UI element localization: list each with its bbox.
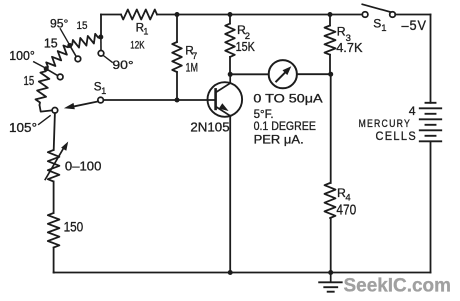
wire top rail R2 to R3 node [230,14,330,16]
wire top rail R3 to switch [330,14,362,16]
rheostat arrow [45,146,65,179]
svg-text:1M: 1M [186,61,199,75]
leader 105 degrees [39,116,51,125]
meter M1 circle [269,60,297,88]
svg-text:15: 15 [24,74,35,88]
rheostat 0-100 [48,150,60,182]
wire chain end to 105 contact [40,105,53,112]
svg-text:7: 7 [192,51,197,61]
leader 95 degrees [60,29,68,43]
switch S1 left contact [362,12,368,18]
transistor Q1 circle [208,82,243,117]
svg-text:1: 1 [101,86,106,96]
wire R2 bottom lead [229,57,231,74]
battery cell 3 negative plate [426,124,436,126]
svg-text:470: 470 [336,202,356,218]
node 95 degrees tap [67,43,72,48]
contact 90 degrees [98,51,104,57]
meter M1 needle [276,71,286,81]
switch S1 wiper arrowhead [64,103,75,109]
node collector junction [228,72,233,77]
battery cell 2 positive plate [420,118,441,120]
resistor 15 (95-100 segment) [46,46,70,69]
wire collector node to meter [233,73,269,75]
wire battery bottom lead [430,142,432,273]
wire R4 bottom lead [330,218,332,273]
resistor R4 [325,183,336,218]
transistor Q1 emitter arrow (PNP) [219,103,229,111]
wire S1 wiper to base node [103,99,177,101]
wire R3 top lead [329,15,331,26]
svg-text:0 TO 50μA: 0 TO 50μA [253,92,322,106]
svg-text:100°: 100° [9,49,35,63]
wire R3 bottom lead [329,55,331,74]
resistor 15 (90-95 segment) [70,34,101,48]
wire 150 to bottom rail [53,248,55,273]
svg-text:0–100: 0–100 [65,158,102,173]
resistor 150 [48,213,60,248]
wire R7 bottom lead [176,72,178,100]
node meter-R3-R4 junction [328,72,333,77]
battery cell 1 positive plate [420,107,441,109]
resistor R1 [121,10,157,20]
svg-text:SeekIC.com: SeekIC.com [344,275,452,297]
resistor R3 [325,26,336,55]
svg-text:R: R [337,25,346,39]
wire rheostat to 150 [53,182,55,214]
switch S1 right contact [390,12,396,18]
contact 100 degrees [57,74,63,80]
svg-text:90°: 90° [112,58,133,72]
transistor Q1 base bar [214,89,217,109]
svg-text:S: S [373,17,381,31]
svg-text:1: 1 [143,27,148,37]
ground symbol [330,273,332,282]
svg-text:0.1 DEGREE: 0.1 DEGREE [254,119,316,133]
svg-text:1: 1 [381,23,386,34]
svg-text:150: 150 [64,220,84,235]
resistor R7 [172,42,182,72]
switch S1 wiper arm [74,101,99,106]
battery cell 4 negative plate [426,135,436,137]
svg-text:4: 4 [409,104,416,118]
wire switch to battery corner [395,14,430,16]
wire stub to 95 contact [70,46,77,57]
battery cell 3 positive plate [420,129,441,131]
wire top rail R7 to R2 node [177,14,230,16]
svg-text:2N105: 2N105 [190,120,229,135]
wire stub to 90 contact [100,37,102,51]
leader 100 degrees [34,62,45,68]
wire bottom rail [54,272,431,274]
wire meter to R3 node [297,73,331,75]
svg-text:15K: 15K [236,39,255,54]
leader 90 degrees [104,56,113,63]
svg-text:CELLS: CELLS [376,129,418,143]
wire R7 top lead [176,15,178,43]
svg-text:4.7K: 4.7K [336,40,362,55]
node emitter-bottom rail junction [228,270,233,275]
svg-text:15: 15 [44,37,58,51]
wire battery top lead [430,15,432,103]
battery cell 1 negative plate [426,102,436,104]
wire R4 top lead [330,74,332,183]
contact 95 degrees [75,56,81,62]
wire R2 top lead [229,15,231,24]
battery cell 4 positive plate [420,140,441,142]
node base junction [175,98,180,103]
resistor R2 [225,24,235,57]
node R3 top [328,12,333,17]
svg-text:–5V: –5V [402,18,428,33]
wire stub to 100 contact [46,69,58,76]
wire base node to transistor [177,99,216,101]
wire 105 contact down [54,113,55,150]
transistor Q1 collector stroke [216,74,231,92]
node R2 top [228,12,233,17]
wire top rail R1 to R7 node [157,14,177,16]
wire top-left corner down [100,15,102,38]
svg-text:95°: 95° [50,16,69,30]
node ground junction [328,270,333,275]
switch S1 wiper contact [98,97,104,103]
svg-text:12K: 12K [130,40,145,52]
battery cell 2 negative plate [426,113,436,115]
contact 105 degrees [52,108,58,114]
node 100 degrees tap [44,66,49,71]
switch S1 blade [362,4,390,12]
node thermistor chain top [98,35,103,40]
svg-text:15: 15 [77,20,88,32]
resistor 15 (100-105 segment) [36,69,50,105]
svg-text:PER μA.: PER μA. [254,133,304,147]
node R7 top [175,12,180,17]
svg-text:105°: 105° [9,120,37,135]
wire emitter down to rail [229,116,231,273]
wire top rail left segment [101,14,121,16]
transistor Q1 emitter stroke [216,107,231,116]
